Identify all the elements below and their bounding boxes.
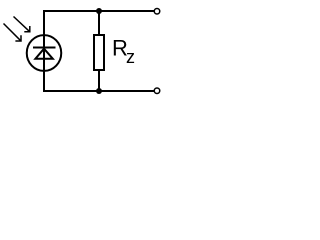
svg-text:z: z [126, 47, 135, 67]
